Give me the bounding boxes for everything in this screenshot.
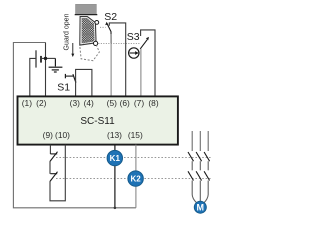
dashed link K2 bbox=[56, 177, 212, 179]
wire terminal 3 and 4 frame bbox=[76, 69, 92, 95]
node rail junction bbox=[114, 207, 117, 210]
S3 direct opening symbol bbox=[129, 48, 139, 58]
linkage dotted upper bbox=[100, 26, 106, 28]
wire terminal 2 lead bbox=[45, 43, 47, 96]
wire terminal 5 lead bbox=[110, 34, 112, 96]
guard fixed frame bbox=[76, 4, 97, 14]
svg-text:M: M bbox=[197, 203, 205, 213]
wire outer rail bbox=[13, 43, 135, 208]
svg-text:(10): (10) bbox=[55, 130, 70, 140]
wire terminal 7 lead bbox=[140, 49, 142, 96]
svg-text:(13): (13) bbox=[107, 130, 122, 140]
svg-text:(7): (7) bbox=[134, 98, 144, 108]
svg-text:(5): (5) bbox=[107, 98, 117, 108]
S2 frame bbox=[109, 23, 125, 96]
phase middle segments bbox=[192, 161, 208, 170]
terminal labels bottom bbox=[43, 130, 143, 140]
phase lower segments to motor bbox=[192, 181, 208, 203]
contact K2 main bbox=[188, 171, 210, 180]
contact K1 main bbox=[188, 152, 210, 161]
svg-text:(4): (4) bbox=[84, 98, 94, 108]
svg-text:K1: K1 bbox=[110, 154, 121, 163]
svg-text:Guard open: Guard open bbox=[63, 13, 70, 50]
svg-text:S2: S2 bbox=[104, 11, 117, 23]
ground bbox=[49, 58, 63, 72]
terminal labels top bbox=[22, 98, 159, 108]
wire battery to junction bbox=[42, 57, 56, 59]
S2 blade bbox=[107, 24, 111, 43]
guard roller lower bbox=[94, 41, 98, 45]
svg-text:K2: K2 bbox=[130, 175, 141, 184]
linkage dotted lower bbox=[98, 43, 140, 45]
svg-text:S1: S1 bbox=[57, 82, 70, 94]
svg-text:(15): (15) bbox=[128, 130, 143, 140]
wire terminal 9 lead bbox=[49, 145, 51, 154]
S3 frame bbox=[141, 30, 155, 96]
relay unit SC-S11 box bbox=[18, 96, 178, 144]
battery long plate bbox=[35, 50, 37, 67]
guard door bbox=[80, 17, 96, 45]
svg-text:(9): (9) bbox=[43, 130, 53, 140]
svg-text:(8): (8) bbox=[148, 98, 158, 108]
battery short plate bbox=[40, 56, 42, 63]
svg-text:SC-S11: SC-S11 bbox=[80, 116, 115, 127]
wire feedback loop bbox=[50, 145, 65, 201]
wire terminal 1 lead bbox=[30, 58, 36, 95]
guard door open dashed bbox=[80, 45, 100, 60]
contactor coil K1 bbox=[107, 150, 122, 165]
guard open label bbox=[63, 13, 70, 50]
S3 actuator arrow bbox=[146, 37, 149, 40]
switch S1 bbox=[65, 74, 76, 83]
S3 blade bbox=[140, 40, 147, 49]
contactor coil K2 bbox=[128, 171, 143, 186]
guard roller upper bbox=[95, 21, 99, 25]
wire between contacts bbox=[49, 161, 51, 174]
svg-text:(2): (2) bbox=[36, 98, 46, 108]
S2 actuator arrow bbox=[105, 22, 108, 25]
svg-text:(6): (6) bbox=[120, 98, 130, 108]
svg-text:(1): (1) bbox=[22, 98, 32, 108]
svg-text:(3): (3) bbox=[70, 98, 80, 108]
node junction dot bbox=[44, 57, 47, 60]
contact K1 aux bbox=[50, 152, 58, 162]
dashed link K1 bbox=[56, 157, 212, 159]
three phase upper segments bbox=[192, 131, 208, 151]
guard open arrow bbox=[71, 43, 74, 57]
contact K2 aux bbox=[50, 172, 58, 182]
wire terminal 15 lead bbox=[135, 145, 137, 208]
motor M bbox=[194, 201, 206, 213]
svg-text:S3: S3 bbox=[127, 31, 140, 43]
wire terminal 13 lead bbox=[114, 145, 116, 208]
